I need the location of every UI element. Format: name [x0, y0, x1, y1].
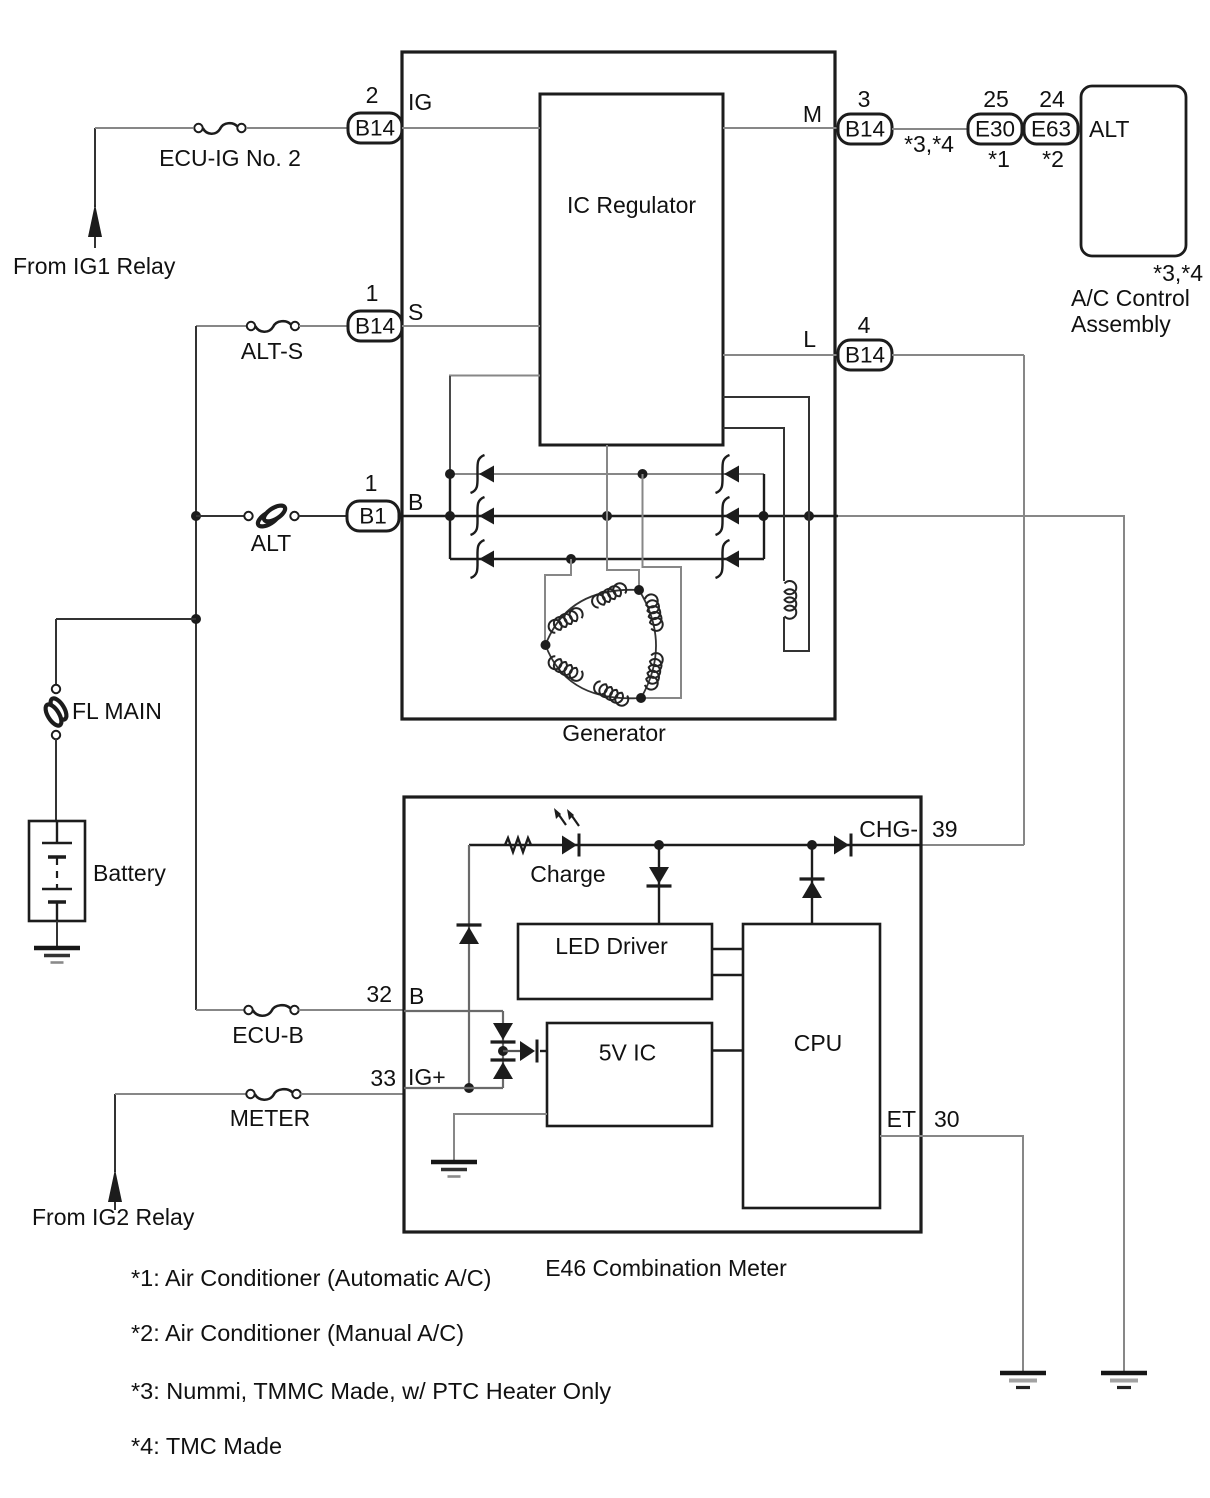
svg-text:B14: B14	[355, 314, 395, 339]
svg-text:ALT-S: ALT-S	[241, 338, 303, 364]
label: Assembly	[1071, 311, 1171, 337]
svg-text:B14: B14	[845, 343, 885, 368]
wire: ECU-IG No.2 feed	[95, 127, 193, 129]
fuse ALT-S	[247, 321, 299, 332]
node: stator phase 3 tap	[541, 640, 551, 650]
E46 combination meter box	[404, 797, 921, 1232]
label: 5V IC	[599, 1040, 657, 1066]
wire: IC Regulator to stator phase 1	[607, 445, 639, 590]
generator box	[402, 52, 835, 719]
diode D6 (rectifier)	[716, 540, 740, 578]
label: E46 Combination Meter	[545, 1255, 787, 1281]
connector 1 B1 (B)	[347, 501, 399, 531]
diode D4 (rectifier)	[716, 455, 740, 493]
svg-text:24: 24	[1039, 86, 1065, 112]
diode D9 (from CPU)	[800, 845, 825, 924]
pin label L	[803, 326, 816, 352]
svg-text:M: M	[803, 101, 822, 127]
connector 2 B14 (IG)	[348, 113, 402, 143]
wire: L from IC Regulator	[723, 354, 838, 356]
svg-text:ECU-B: ECU-B	[232, 1022, 304, 1048]
wire: ECU-B fuse to meter pin 32	[299, 1009, 405, 1011]
wire: field coil top lead	[723, 428, 784, 581]
svg-text:1: 1	[366, 280, 379, 306]
svg-text:*3,*4: *3,*4	[904, 131, 954, 157]
svg-text:ALT: ALT	[1089, 116, 1129, 142]
pin number 2	[366, 82, 379, 108]
svg-text:ECU-IG No. 2: ECU-IG No. 2	[159, 145, 301, 171]
wire: battery branch horizontal	[56, 618, 196, 620]
ground (ET)	[1000, 1373, 1046, 1388]
wire: L net to meter CHG-	[921, 844, 1024, 846]
label: A/C Control	[1071, 285, 1190, 311]
label: METER	[230, 1105, 311, 1131]
pin number 4	[858, 312, 871, 338]
wire: From IG1 Relay riser	[94, 128, 96, 207]
wire: rectifier left bus	[449, 474, 451, 559]
pin number 33	[370, 1065, 396, 1091]
diode D1 (rectifier)	[471, 455, 495, 493]
fuse METER	[246, 1089, 300, 1100]
connector 3 B14 (M)	[838, 114, 892, 144]
svg-text:4: 4	[858, 312, 871, 338]
wire: field coil bottom lead	[723, 397, 809, 651]
svg-text:IG+: IG+	[408, 1064, 446, 1090]
LED driver box U2	[518, 924, 712, 999]
wire: fuse to connector 2/B14	[246, 127, 349, 129]
wire: charge lamp rail	[469, 844, 921, 846]
svg-text:A/C Control: A/C Control	[1071, 285, 1190, 311]
node: LED driver branch	[654, 840, 664, 850]
wire: clamp diode pair vertical	[502, 1011, 504, 1088]
diode D3 (rectifier)	[471, 540, 495, 578]
pin number 25	[983, 86, 1009, 112]
pin label IG+	[408, 1064, 446, 1090]
fusible link ALT	[244, 502, 298, 529]
label: Battery	[93, 860, 166, 886]
label: Charge	[530, 861, 605, 887]
wire: IC Regulator to rectifier left bus	[450, 376, 540, 475]
connector 25 E30	[968, 114, 1022, 144]
svg-text:Battery: Battery	[93, 860, 166, 886]
svg-text:From IG1 Relay: From IG1 Relay	[13, 253, 176, 279]
wire: LED driver to CPU upper	[712, 948, 743, 950]
connector 1 B14 (S)	[348, 311, 402, 341]
label: IC Regulator	[567, 192, 696, 218]
svg-text:CPU: CPU	[794, 1030, 843, 1056]
ground (B net)	[1101, 1373, 1147, 1388]
svg-text:*2: Air Conditioner (Manual A/: *2: Air Conditioner (Manual A/C)	[131, 1320, 464, 1346]
wire: row3 to stator phase 3	[545, 559, 571, 643]
wire: B net to ground (right)	[838, 516, 1124, 1373]
svg-text:*3,*4: *3,*4	[1153, 260, 1203, 286]
svg-text:S: S	[408, 299, 423, 325]
diode D11 (IG+ riser)	[457, 925, 482, 944]
wire: ALT-S feed	[196, 325, 247, 327]
label: ECU-B	[232, 1022, 304, 1048]
svg-text:B14: B14	[355, 116, 395, 141]
wire: battery to ground	[56, 921, 58, 948]
node: row3 stator branch	[566, 554, 576, 564]
svg-text:L: L	[803, 326, 816, 352]
5V IC box U4	[547, 1023, 712, 1126]
svg-text:IC Regulator: IC Regulator	[567, 192, 696, 218]
arrow: From IG2 Relay	[108, 1169, 122, 1210]
pin label S	[408, 299, 423, 325]
pin label ET	[887, 1106, 916, 1132]
wire: row1 to stator phase 2	[641, 474, 681, 698]
note *4	[131, 1433, 282, 1459]
wire: rectifier row 1	[450, 473, 764, 475]
svg-text:E30: E30	[975, 117, 1015, 142]
diode D2 (rectifier)	[471, 497, 495, 535]
svg-text:*1: Air Conditioner (Automatic: *1: Air Conditioner (Automatic A/C)	[131, 1265, 492, 1291]
svg-text:CHG-: CHG-	[859, 816, 918, 842]
node: battery tap junction	[191, 614, 201, 624]
diode D8 (to LED driver)	[647, 845, 672, 924]
node: B junction at left bus	[191, 511, 201, 521]
wire: L to CHG- net (right run)	[892, 354, 1024, 356]
field winding (rotor coil)	[785, 581, 797, 619]
svg-text:Assembly: Assembly	[1071, 311, 1171, 337]
note *2	[131, 1320, 464, 1346]
node: row1-left bus	[445, 469, 455, 479]
node: B-regulator sense	[602, 511, 612, 521]
label: Generator	[562, 720, 666, 746]
label: FL MAIN	[72, 698, 162, 724]
pin label B (meter)	[409, 983, 424, 1009]
wire: meter IG+ pin 33 internal	[404, 1087, 503, 1089]
svg-text:1: 1	[365, 470, 378, 496]
label: *3,*4 (A/C control)	[1153, 260, 1203, 286]
svg-text:5V IC: 5V IC	[599, 1040, 657, 1066]
svg-text:25: 25	[983, 86, 1009, 112]
ground (battery)	[34, 948, 80, 963]
wire: LED driver to CPU lower	[712, 974, 743, 976]
connector 24 E63	[1024, 114, 1078, 144]
note *1	[131, 1265, 492, 1291]
pin label IG	[408, 89, 432, 115]
svg-text:2: 2	[366, 82, 379, 108]
wire: M from IC Regulator	[723, 127, 838, 129]
wire: 5V IC ground lead	[454, 1114, 547, 1162]
node: stator phase 1 tap	[634, 585, 644, 595]
svg-text:FL MAIN: FL MAIN	[72, 698, 162, 724]
svg-text:METER: METER	[230, 1105, 311, 1131]
node: row1 stator branch	[638, 469, 648, 479]
wire: fusible link to connector B1	[299, 515, 348, 517]
svg-text:*2: *2	[1042, 146, 1064, 172]
node: B-right bus	[759, 511, 769, 521]
svg-text:E63: E63	[1031, 117, 1071, 142]
wire: IG pin to IC Regulator	[402, 127, 540, 129]
svg-text:Generator: Generator	[562, 720, 666, 746]
wire: M to E30	[892, 128, 970, 130]
label: From IG2 Relay	[32, 1204, 195, 1230]
svg-text:From IG2 Relay: From IG2 Relay	[32, 1204, 195, 1230]
svg-text:39: 39	[932, 816, 958, 842]
fuse ECU-B	[244, 1005, 298, 1016]
wire: FL MAIN to battery	[55, 739, 57, 822]
wire: L net vertical	[1023, 355, 1025, 845]
svg-text:ALT: ALT	[251, 530, 291, 556]
pin label M	[803, 101, 822, 127]
IC Regulator box U1	[540, 94, 723, 445]
diode D5 (rectifier)	[716, 497, 740, 535]
wire: fuse to connector 1/B14	[299, 325, 349, 327]
diode D12 (clamp upper)	[491, 1023, 516, 1042]
node: B-left bus	[445, 511, 455, 521]
resistor R1 (charge lamp)	[505, 838, 531, 852]
svg-text:B14: B14	[845, 117, 885, 142]
ground (5V IC)	[431, 1162, 477, 1177]
diode D14 (to 5V IC)	[520, 1040, 547, 1063]
A/C control assembly box (ALT)	[1081, 86, 1186, 256]
label: ALT (fusible link)	[251, 530, 291, 556]
label: *3,*4 (M wire)	[904, 131, 954, 157]
pin number 32	[366, 981, 392, 1007]
svg-text:E46 Combination Meter: E46 Combination Meter	[545, 1255, 787, 1281]
arrow: From IG1 Relay	[88, 204, 102, 248]
svg-text:LED Driver: LED Driver	[555, 933, 668, 959]
wire: left bus vertical (ALT-S to ECU-B)	[195, 326, 197, 1010]
wire: METER fuse to meter pin 33	[301, 1093, 405, 1095]
label: *1	[988, 146, 1010, 172]
wire: ET to ground	[880, 1136, 1023, 1373]
svg-text:3: 3	[858, 86, 871, 112]
pin label CHG-	[859, 816, 918, 842]
pin number 30	[934, 1106, 960, 1132]
label: ECU-IG No. 2	[159, 145, 301, 171]
diode D13 (clamp lower)	[491, 1060, 516, 1079]
node: CPU branch	[807, 840, 817, 850]
stator winding (3-phase)	[546, 581, 664, 708]
wire: S pin to IC Regulator	[402, 325, 540, 327]
LED charge lamp D7	[562, 834, 579, 857]
battery	[29, 821, 85, 921]
CPU box U3	[743, 924, 880, 1208]
pin number 39	[932, 816, 958, 842]
svg-text:*1: *1	[988, 146, 1010, 172]
label: From IG1 Relay	[13, 253, 176, 279]
svg-text:B: B	[409, 983, 424, 1009]
wire: rectifier right bus	[763, 474, 765, 559]
wire: IG+ rail riser	[468, 845, 470, 1088]
wire: B feed to fusible link	[196, 515, 245, 517]
wire: From IG2 Relay riser	[114, 1094, 116, 1172]
note *3	[131, 1378, 611, 1404]
connector 4 B14 (L)	[838, 340, 892, 370]
svg-text:Charge: Charge	[530, 861, 605, 887]
svg-text:B: B	[408, 489, 423, 515]
label: CPU	[794, 1030, 843, 1056]
node: IG+ junction	[464, 1083, 474, 1093]
svg-text:*4: TMC Made: *4: TMC Made	[131, 1433, 282, 1459]
label: *2	[1042, 146, 1064, 172]
svg-text:B1: B1	[359, 504, 387, 529]
svg-text:ET: ET	[887, 1106, 916, 1132]
svg-text:IG: IG	[408, 89, 432, 115]
wire: battery branch vertical	[55, 619, 57, 685]
pin number 1	[366, 280, 379, 306]
wire: clamp centre to 5V IC	[503, 1050, 520, 1052]
wire: METER feed	[115, 1093, 246, 1095]
fusible link FL MAIN	[42, 685, 69, 739]
wire: rectifier row 3	[450, 558, 764, 560]
wire: meter B pin 32 internal	[404, 1010, 503, 1012]
wire: ECU-B feed	[196, 1009, 244, 1011]
fuse ECU-IG No. 2	[194, 123, 245, 134]
svg-text:33: 33	[370, 1065, 396, 1091]
wire: 5V IC to CPU	[712, 1049, 743, 1051]
label: ALT-S	[241, 338, 303, 364]
label: ALT (A/C control)	[1089, 116, 1129, 142]
node: stator phase 2 tap	[636, 693, 646, 703]
diode D10 (to CHG-)	[834, 834, 851, 857]
svg-text:*3: Nummi, TMMC Made, w/ PTC H: *3: Nummi, TMMC Made, w/ PTC Heater Only	[131, 1378, 611, 1404]
pin number 1 (B1)	[365, 470, 378, 496]
node: B-field branch	[804, 511, 814, 521]
node: clamp centre	[498, 1046, 508, 1056]
svg-text:32: 32	[366, 981, 392, 1007]
pin number 24	[1039, 86, 1065, 112]
LED emission arrows	[554, 808, 579, 826]
label: LED Driver	[555, 933, 668, 959]
pin number 3	[858, 86, 871, 112]
svg-text:30: 30	[934, 1106, 960, 1132]
wire: B row inside generator	[399, 515, 838, 517]
pin label B (generator)	[408, 489, 423, 515]
